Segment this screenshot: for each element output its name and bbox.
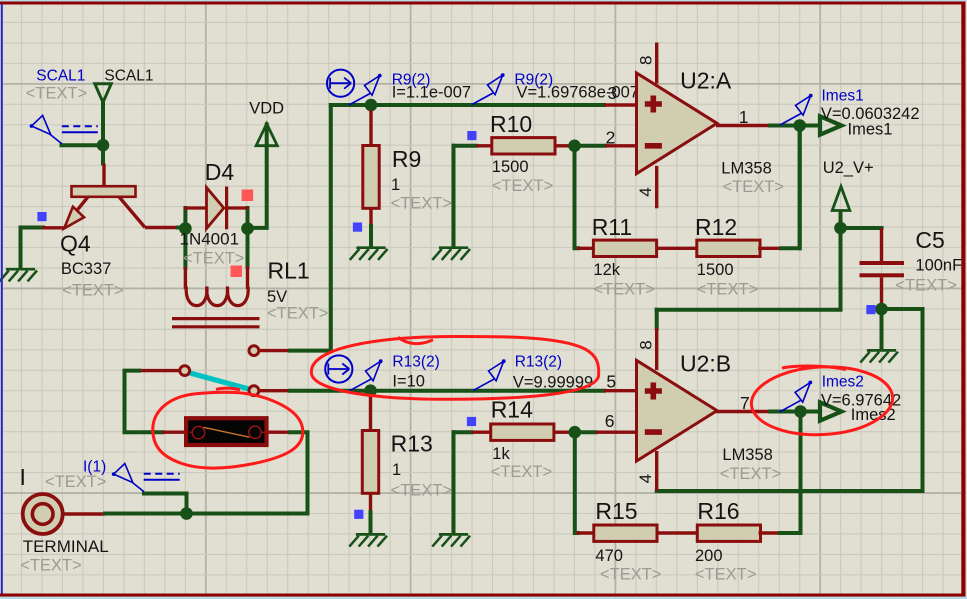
svg-text:I: I	[20, 464, 26, 490]
svg-text:<TEXT>: <TEXT>	[723, 178, 784, 196]
svg-text:BC337: BC337	[61, 260, 111, 278]
svg-text:7: 7	[740, 393, 750, 413]
svg-text:Imes1: Imes1	[822, 88, 864, 105]
svg-text:2: 2	[606, 128, 616, 148]
svg-text:1k: 1k	[492, 445, 510, 463]
svg-text:4: 4	[636, 474, 655, 483]
svg-text:100nF: 100nF	[915, 257, 962, 275]
svg-text:8: 8	[636, 340, 655, 349]
svg-text:R13(2): R13(2)	[515, 354, 562, 371]
svg-text:5V: 5V	[267, 288, 287, 306]
svg-text:8: 8	[636, 56, 655, 65]
svg-text:R12: R12	[695, 214, 737, 240]
svg-text:<TEXT>: <TEXT>	[720, 465, 781, 483]
svg-text:Imes2: Imes2	[822, 373, 864, 390]
svg-text:470: 470	[595, 547, 623, 565]
svg-text:R15: R15	[595, 498, 637, 524]
svg-text:R13: R13	[391, 430, 433, 456]
svg-text:1: 1	[392, 461, 401, 479]
svg-text:<TEXT>: <TEXT>	[267, 305, 328, 323]
svg-text:<TEXT>: <TEXT>	[695, 566, 756, 584]
svg-text:<TEXT>: <TEXT>	[895, 277, 956, 295]
svg-text:RL1: RL1	[268, 258, 310, 284]
svg-text:1500: 1500	[492, 158, 529, 176]
svg-text:1500: 1500	[697, 261, 734, 279]
svg-text:LM358: LM358	[722, 446, 772, 464]
svg-text:1: 1	[739, 107, 749, 127]
svg-text:U2:B: U2:B	[680, 351, 731, 377]
svg-text:200: 200	[695, 547, 723, 565]
svg-text:I=10: I=10	[392, 373, 425, 391]
svg-text:<TEXT>: <TEXT>	[183, 250, 244, 268]
svg-text:<TEXT>: <TEXT>	[492, 177, 553, 195]
svg-text:R9: R9	[392, 146, 421, 172]
svg-text:<TEXT>: <TEXT>	[62, 282, 123, 300]
svg-text:5: 5	[606, 371, 616, 391]
svg-text:<TEXT>: <TEXT>	[600, 566, 661, 584]
svg-text:SCAL1: SCAL1	[36, 67, 85, 84]
svg-text:SCAL1: SCAL1	[104, 67, 153, 84]
svg-text:R16: R16	[697, 498, 739, 524]
svg-text:1N4001: 1N4001	[180, 230, 240, 249]
svg-text:U2:A: U2:A	[680, 68, 732, 94]
svg-text:<TEXT>: <TEXT>	[391, 482, 452, 500]
svg-text:D4: D4	[205, 159, 235, 185]
svg-text:TERMINAL: TERMINAL	[23, 537, 109, 556]
svg-text:<TEXT>: <TEXT>	[697, 281, 758, 299]
svg-text:Q4: Q4	[60, 231, 91, 257]
svg-text:3: 3	[608, 83, 618, 103]
svg-text:R13(2): R13(2)	[392, 354, 439, 371]
svg-text:V=1.69768e-007: V=1.69768e-007	[517, 83, 640, 101]
svg-text:R10: R10	[490, 111, 532, 137]
svg-text:12k: 12k	[593, 261, 620, 279]
svg-text:<TEXT>: <TEXT>	[20, 556, 81, 574]
svg-text:6: 6	[605, 411, 615, 431]
svg-text:<TEXT>: <TEXT>	[391, 195, 452, 213]
svg-text:R14: R14	[491, 397, 533, 423]
svg-text:C5: C5	[915, 227, 944, 253]
svg-text:I=1.1e-007: I=1.1e-007	[392, 83, 471, 101]
svg-text:LM358: LM358	[721, 160, 771, 178]
svg-text:<TEXT>: <TEXT>	[45, 473, 106, 491]
svg-text:4: 4	[636, 187, 655, 196]
svg-text:VDD: VDD	[249, 99, 284, 117]
svg-text:<TEXT>: <TEXT>	[26, 85, 87, 103]
svg-text:<TEXT>: <TEXT>	[593, 281, 654, 299]
svg-text:R11: R11	[592, 214, 633, 240]
svg-text:Imes1: Imes1	[848, 120, 893, 138]
svg-text:U2_V+: U2_V+	[823, 159, 874, 177]
svg-text:1: 1	[391, 176, 400, 194]
svg-text:<TEXT>: <TEXT>	[491, 463, 552, 481]
